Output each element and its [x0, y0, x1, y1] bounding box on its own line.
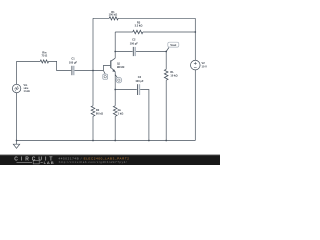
svg-text:C3: C3 — [138, 75, 142, 79]
svg-text:10 V: 10 V — [202, 65, 208, 69]
svg-text:100 kΩ: 100 kΩ — [109, 13, 118, 17]
svg-text:BD139: BD139 — [117, 67, 125, 69]
svg-text:Vout: Vout — [170, 43, 176, 47]
svg-text:1 kΩ: 1 kΩ — [118, 111, 124, 115]
svg-text:100 µF: 100 µF — [135, 79, 144, 83]
svg-text:RL: RL — [170, 70, 174, 74]
svg-text:C1: C1 — [71, 57, 75, 61]
svg-text:LAB: LAB — [44, 160, 55, 165]
svg-text:100 µF: 100 µF — [69, 60, 78, 64]
svg-text:R2: R2 — [96, 108, 100, 112]
svg-text:3.3 kΩ: 3.3 kΩ — [135, 24, 143, 28]
svg-text:75 Ω: 75 Ω — [42, 53, 48, 57]
svg-text:80 kΩ: 80 kΩ — [96, 111, 103, 115]
svg-text:C2: C2 — [132, 38, 136, 42]
svg-text:1 kHz: 1 kHz — [24, 90, 31, 93]
svg-text:10 kΩ: 10 kΩ — [170, 73, 177, 77]
svg-text:Re: Re — [118, 108, 122, 112]
svg-text:100 µF: 100 µF — [130, 41, 139, 45]
svg-text:http://circuitlab.com/c/g4hbn2: http://circuitlab.com/c/g4hbn2k77py2/ — [59, 160, 127, 164]
